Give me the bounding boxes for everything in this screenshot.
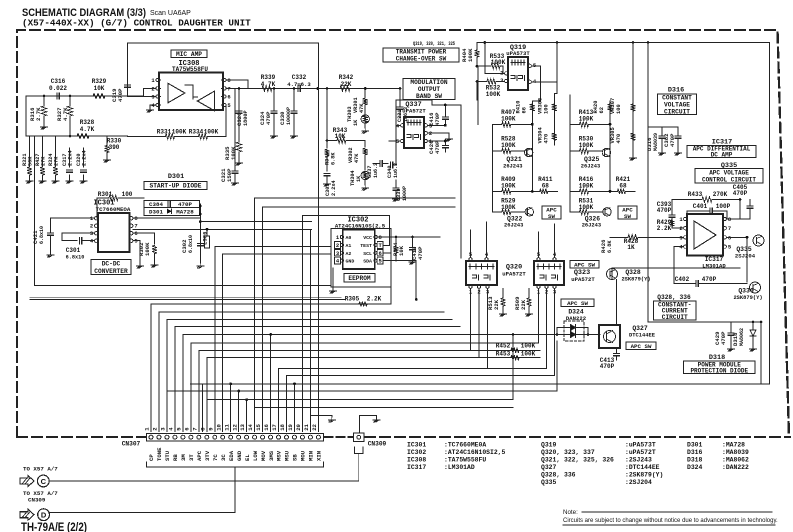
svg-text:100K: 100K bbox=[486, 91, 501, 98]
svg-text::TA75W558FU: :TA75W558FU bbox=[444, 456, 486, 463]
svg-text:12: 12 bbox=[231, 423, 238, 430]
svg-text:GND: GND bbox=[346, 259, 355, 265]
svg-text:470P: 470P bbox=[178, 201, 192, 208]
svg-text:R453: R453 bbox=[496, 350, 511, 357]
svg-text:7: 7 bbox=[191, 427, 198, 430]
svg-text:14: 14 bbox=[247, 423, 254, 430]
svg-text:DTC144EE: DTC144EE bbox=[629, 333, 656, 339]
svg-text:APC SW: APC SW bbox=[631, 343, 652, 350]
svg-text:R305: R305 bbox=[345, 296, 360, 303]
svg-text:Q336: Q336 bbox=[738, 288, 754, 295]
svg-text:470P: 470P bbox=[417, 246, 424, 260]
svg-text:R433: R433 bbox=[688, 191, 703, 198]
svg-text:CIRCUIT: CIRCUIT bbox=[664, 108, 690, 115]
svg-text:68: 68 bbox=[619, 183, 627, 190]
svg-text:470P: 470P bbox=[434, 112, 441, 126]
svg-text:2: 2 bbox=[90, 223, 93, 230]
svg-text:Q328, 336: Q328, 336 bbox=[657, 294, 691, 301]
svg-text:IC301: IC301 bbox=[407, 442, 426, 449]
svg-text:100K: 100K bbox=[230, 146, 237, 160]
svg-text:GND: GND bbox=[236, 450, 243, 461]
svg-text:CN309: CN309 bbox=[28, 497, 46, 504]
svg-text:2.2K: 2.2K bbox=[367, 296, 382, 303]
svg-text:100K: 100K bbox=[144, 242, 151, 256]
svg-text:2SK879(Y): 2SK879(Y) bbox=[733, 295, 762, 301]
svg-text::MA728: :MA728 bbox=[722, 442, 745, 449]
svg-text:6: 6 bbox=[227, 94, 230, 101]
svg-text:PROTECTION DIODE: PROTECTION DIODE bbox=[690, 368, 748, 375]
svg-text::DAN222: :DAN222 bbox=[722, 464, 749, 471]
svg-text:9: 9 bbox=[207, 427, 214, 431]
svg-text:62: 62 bbox=[599, 107, 605, 113]
svg-text:2.7K: 2.7K bbox=[35, 107, 42, 121]
svg-text:3: 3 bbox=[500, 77, 504, 84]
svg-text:10K: 10K bbox=[94, 85, 105, 92]
svg-text:26J243: 26J243 bbox=[581, 163, 600, 169]
svg-text:68: 68 bbox=[542, 183, 550, 190]
svg-text:C302: C302 bbox=[181, 239, 188, 253]
svg-text:A0: A0 bbox=[346, 235, 352, 241]
svg-text:7: 7 bbox=[728, 225, 731, 232]
svg-text:TEST: TEST bbox=[360, 243, 372, 249]
svg-text:4.7K: 4.7K bbox=[80, 126, 95, 133]
svg-text:LOW: LOW bbox=[252, 450, 259, 461]
svg-text::uPA572T: :uPA572T bbox=[625, 449, 656, 456]
svg-text:470P: 470P bbox=[117, 88, 124, 102]
svg-text:1800P: 1800P bbox=[243, 110, 249, 126]
svg-text:RB: RB bbox=[172, 454, 179, 461]
svg-text:26J243: 26J243 bbox=[504, 223, 523, 229]
svg-text:4.7u6.3: 4.7u6.3 bbox=[287, 81, 311, 88]
svg-text:EDA: EDA bbox=[228, 450, 235, 461]
svg-text:OUTPUT: OUTPUT bbox=[418, 86, 441, 93]
svg-text:3: 3 bbox=[336, 250, 340, 257]
svg-text:C384: C384 bbox=[149, 201, 163, 208]
svg-text::2SJ204: :2SJ204 bbox=[625, 479, 652, 486]
svg-text:10000P: 10000P bbox=[286, 107, 292, 125]
svg-text:7C: 7C bbox=[212, 454, 219, 461]
svg-text:22K: 22K bbox=[520, 299, 527, 310]
svg-text:MA728: MA728 bbox=[176, 209, 194, 216]
svg-text:Circuits are subject to change: Circuits are subject to change without n… bbox=[563, 518, 778, 524]
svg-text:13: 13 bbox=[239, 423, 246, 430]
svg-text:470: 470 bbox=[616, 134, 622, 144]
svg-text:0.022: 0.022 bbox=[49, 85, 67, 92]
svg-text:R339: R339 bbox=[261, 74, 276, 81]
svg-text:D318: D318 bbox=[687, 456, 703, 463]
svg-text:IC317: IC317 bbox=[407, 464, 426, 471]
svg-text:A2: A2 bbox=[346, 251, 352, 257]
svg-text:MIN: MIN bbox=[308, 451, 315, 461]
svg-text:MA8062: MA8062 bbox=[739, 328, 745, 346]
svg-text:17: 17 bbox=[271, 424, 278, 431]
svg-text:SDA: SDA bbox=[363, 259, 372, 265]
svg-text:20: 20 bbox=[295, 423, 302, 430]
svg-text:SCL: SCL bbox=[363, 251, 372, 257]
svg-text:1000P: 1000P bbox=[402, 186, 408, 201]
svg-text:2.2x4: 2.2x4 bbox=[82, 150, 88, 166]
svg-text::DTC144EE: :DTC144EE bbox=[625, 464, 660, 471]
svg-text::2SK879(Y): :2SK879(Y) bbox=[625, 471, 663, 478]
svg-text:IC302: IC302 bbox=[407, 449, 426, 456]
svg-text:Q321: Q321 bbox=[506, 156, 522, 163]
svg-text:MIC AMP: MIC AMP bbox=[176, 51, 202, 58]
svg-text:100K: 100K bbox=[172, 129, 187, 136]
svg-text:4: 4 bbox=[168, 427, 175, 431]
svg-text:10: 10 bbox=[215, 423, 222, 430]
svg-text:C421: C421 bbox=[32, 230, 39, 244]
svg-text:D: D bbox=[41, 511, 47, 520]
svg-text:IC308: IC308 bbox=[407, 456, 426, 463]
svg-text:1: 1 bbox=[144, 427, 151, 431]
svg-text:2SJ204: 2SJ204 bbox=[735, 253, 756, 260]
svg-text:C326: C326 bbox=[236, 112, 243, 126]
svg-text:270K: 270K bbox=[713, 191, 728, 198]
svg-text:Note:: Note: bbox=[563, 509, 578, 516]
svg-text:6.8K: 6.8K bbox=[331, 152, 337, 165]
svg-text:APC SW: APC SW bbox=[574, 261, 595, 268]
svg-text:6: 6 bbox=[183, 427, 190, 431]
svg-text:Q327: Q327 bbox=[541, 464, 557, 471]
svg-text:100K: 100K bbox=[521, 350, 536, 357]
svg-text:2.2x4: 2.2x4 bbox=[68, 150, 74, 166]
svg-text:MA8039: MA8039 bbox=[653, 133, 659, 151]
svg-text:T: T bbox=[379, 242, 383, 249]
svg-text:C402: C402 bbox=[675, 276, 690, 283]
svg-text:XIN: XIN bbox=[316, 451, 323, 461]
svg-text:470P: 470P bbox=[600, 363, 615, 370]
svg-text:uPA572T: uPA572T bbox=[402, 108, 426, 115]
svg-text:APC VOLTAGE: APC VOLTAGE bbox=[709, 169, 749, 176]
svg-text:19: 19 bbox=[287, 423, 294, 430]
svg-text:470P: 470P bbox=[720, 331, 727, 345]
svg-text:C330: C330 bbox=[279, 111, 286, 125]
svg-text:C316: C316 bbox=[51, 78, 66, 85]
svg-text:Q325: Q325 bbox=[584, 156, 600, 163]
svg-text:5: 5 bbox=[227, 102, 231, 109]
svg-text:Q320, 323, 337: Q320, 323, 337 bbox=[541, 449, 595, 456]
svg-text:SB: SB bbox=[292, 454, 299, 461]
svg-text:1K: 1K bbox=[356, 175, 362, 182]
svg-text:CP: CP bbox=[148, 454, 155, 461]
svg-text:16: 16 bbox=[263, 423, 270, 430]
svg-text:R334: R334 bbox=[189, 129, 204, 136]
svg-text:DC-DC: DC-DC bbox=[102, 260, 121, 267]
svg-text:100K: 100K bbox=[204, 129, 219, 136]
svg-text:6: 6 bbox=[379, 250, 382, 257]
svg-text:AT24C16N10S(2,5: AT24C16N10S(2,5 bbox=[335, 223, 386, 230]
svg-text:CONVERTER: CONVERTER bbox=[94, 268, 128, 275]
svg-text:Q319, 320, 321, 325: Q319, 320, 321, 325 bbox=[413, 40, 455, 47]
svg-text:TH303: TH303 bbox=[347, 106, 353, 122]
svg-text:C: C bbox=[41, 477, 47, 486]
svg-text:1: 1 bbox=[151, 77, 155, 84]
svg-text:Q327: Q327 bbox=[632, 325, 648, 332]
svg-text:MSV: MSV bbox=[276, 450, 283, 461]
svg-text:Scan UA6AP: Scan UA6AP bbox=[150, 10, 191, 17]
svg-text:D316: D316 bbox=[668, 87, 684, 95]
svg-text::AT24C16N10SI2,5: :AT24C16N10SI2,5 bbox=[444, 449, 506, 456]
svg-text:3MS: 3MS bbox=[268, 450, 275, 461]
svg-text:6.8x10: 6.8x10 bbox=[66, 255, 85, 261]
svg-text:22K: 22K bbox=[493, 299, 500, 310]
svg-text:47K: 47K bbox=[359, 103, 365, 113]
svg-text:18: 18 bbox=[279, 423, 286, 430]
svg-text:6.8K: 6.8K bbox=[607, 240, 613, 253]
svg-text:START-UP DIODE: START-UP DIODE bbox=[150, 183, 202, 190]
svg-text:D301: D301 bbox=[687, 442, 703, 449]
svg-text:390: 390 bbox=[109, 144, 120, 151]
svg-text:D318: D318 bbox=[732, 332, 739, 346]
svg-text:56K: 56K bbox=[28, 156, 34, 166]
svg-text:470P: 470P bbox=[434, 140, 441, 154]
svg-text:1K: 1K bbox=[627, 244, 635, 251]
svg-text:CHANGE-OVER SW: CHANGE-OVER SW bbox=[396, 56, 447, 63]
svg-text:5: 5 bbox=[728, 244, 732, 251]
svg-text::MA8039: :MA8039 bbox=[722, 449, 749, 456]
svg-text::2SJ243: :2SJ243 bbox=[625, 456, 652, 463]
svg-text:3C: 3C bbox=[220, 454, 227, 461]
svg-text:470P: 470P bbox=[702, 276, 717, 283]
svg-text:C301: C301 bbox=[66, 247, 81, 254]
svg-text:21: 21 bbox=[303, 423, 310, 430]
svg-text:R329: R329 bbox=[92, 78, 107, 85]
svg-text:27K: 27K bbox=[54, 156, 60, 166]
svg-text:15: 15 bbox=[255, 423, 262, 430]
svg-text:MSU: MSU bbox=[284, 451, 291, 461]
svg-text::LM301AD: :LM301AD bbox=[444, 464, 475, 471]
svg-text:TRANSMIT POWER: TRANSMIT POWER bbox=[396, 49, 447, 56]
svg-text:SW: SW bbox=[624, 213, 631, 220]
svg-text:EL: EL bbox=[244, 454, 251, 461]
svg-text:(X57-440X-XX) (G/7) CONTROL DA: (X57-440X-XX) (G/7) CONTROL DAUGHTER UNI… bbox=[22, 18, 251, 29]
svg-text:Q322: Q322 bbox=[507, 215, 523, 222]
svg-text:R452: R452 bbox=[496, 343, 511, 350]
svg-text:470P: 470P bbox=[733, 190, 748, 197]
svg-text:1u6.3: 1u6.3 bbox=[373, 163, 379, 178]
svg-text:APC: APC bbox=[196, 450, 203, 461]
svg-text:uPA573T: uPA573T bbox=[506, 50, 530, 57]
svg-text:27K: 27K bbox=[41, 156, 47, 166]
svg-text:1K: 1K bbox=[353, 119, 359, 126]
svg-text:1: 1 bbox=[679, 216, 683, 223]
svg-text::MA8062: :MA8062 bbox=[722, 456, 749, 463]
svg-text:11: 11 bbox=[223, 423, 230, 430]
svg-text:470: 470 bbox=[543, 134, 549, 144]
svg-text:2: 2 bbox=[336, 242, 339, 249]
svg-text:2.2K: 2.2K bbox=[657, 225, 672, 232]
svg-text:100K: 100K bbox=[521, 343, 536, 350]
svg-text:Q335: Q335 bbox=[541, 479, 557, 486]
svg-text:6.8x10: 6.8x10 bbox=[188, 235, 194, 253]
svg-text:APC SW: APC SW bbox=[567, 300, 588, 307]
svg-text:TH-79A/E (2/2): TH-79A/E (2/2) bbox=[21, 520, 87, 532]
svg-text:100: 100 bbox=[122, 191, 133, 198]
svg-text:2SK879(Y): 2SK879(Y) bbox=[621, 277, 650, 283]
svg-text:5: 5 bbox=[175, 427, 182, 431]
svg-text:uPA572T: uPA572T bbox=[571, 276, 595, 283]
svg-text:CONTROL CIRCUIT: CONTROL CIRCUIT bbox=[702, 177, 756, 184]
svg-text:3TV: 3TV bbox=[204, 450, 211, 461]
svg-text:3: 3 bbox=[160, 427, 167, 431]
svg-text:STU: STU bbox=[164, 451, 171, 461]
svg-text:D316: D316 bbox=[646, 137, 653, 151]
svg-text:D301: D301 bbox=[168, 173, 184, 181]
svg-text:MODULATION: MODULATION bbox=[410, 79, 447, 86]
svg-text:R328: R328 bbox=[80, 119, 95, 126]
svg-text:CN307: CN307 bbox=[122, 441, 141, 448]
svg-text:MOU: MOU bbox=[300, 451, 307, 461]
svg-text:26J243: 26J243 bbox=[582, 223, 601, 229]
svg-text:EEPROM: EEPROM bbox=[348, 275, 371, 282]
svg-text:7: 7 bbox=[134, 223, 137, 230]
svg-text:Q319: Q319 bbox=[541, 442, 557, 449]
svg-text:2: 2 bbox=[152, 427, 159, 431]
svg-text:3M: 3M bbox=[180, 454, 187, 461]
svg-text:150P: 150P bbox=[226, 168, 233, 182]
svg-text:470P: 470P bbox=[669, 133, 676, 147]
svg-text:10K: 10K bbox=[398, 245, 405, 256]
svg-text:Q326: Q326 bbox=[585, 215, 601, 222]
svg-text:uPA572T: uPA572T bbox=[502, 271, 526, 278]
svg-text:CIRCUIT: CIRCUIT bbox=[662, 314, 688, 321]
svg-text:TC7660MEOA: TC7660MEOA bbox=[96, 206, 131, 213]
svg-text:2.2x4: 2.2x4 bbox=[331, 180, 337, 196]
svg-text:26J243: 26J243 bbox=[503, 163, 522, 169]
svg-text:Q321, 322, 325, 326: Q321, 322, 325, 326 bbox=[541, 456, 614, 463]
svg-text:Q328: Q328 bbox=[625, 269, 641, 276]
svg-text:TO X57 A/7: TO X57 A/7 bbox=[23, 466, 58, 473]
svg-text:MOV: MOV bbox=[260, 450, 267, 461]
svg-text:47K: 47K bbox=[354, 153, 360, 163]
svg-text:22K: 22K bbox=[341, 81, 352, 88]
svg-text:DC AMP: DC AMP bbox=[711, 152, 733, 159]
svg-text:1: 1 bbox=[336, 234, 340, 241]
svg-text:100: 100 bbox=[543, 104, 549, 114]
svg-text:100K: 100K bbox=[467, 48, 474, 62]
svg-text:D324: D324 bbox=[687, 464, 703, 471]
svg-text:VCC: VCC bbox=[363, 235, 372, 241]
svg-text:BAND SW: BAND SW bbox=[416, 93, 442, 100]
svg-text::uPA573T: :uPA573T bbox=[625, 442, 656, 449]
svg-text:C401: C401 bbox=[693, 203, 708, 210]
svg-text:100: 100 bbox=[616, 104, 622, 114]
svg-text:470P: 470P bbox=[657, 207, 672, 214]
svg-text:D301: D301 bbox=[149, 209, 163, 216]
svg-text:TONE: TONE bbox=[156, 447, 163, 461]
svg-text:D316: D316 bbox=[687, 449, 703, 456]
svg-text:3T: 3T bbox=[188, 454, 195, 461]
svg-text:A1: A1 bbox=[346, 243, 352, 249]
svg-text:22: 22 bbox=[311, 423, 318, 430]
svg-text::TC7660ME0A: :TC7660ME0A bbox=[444, 442, 486, 449]
svg-text:CN309: CN309 bbox=[368, 441, 387, 448]
svg-text:6.8x10: 6.8x10 bbox=[39, 226, 45, 244]
svg-text:R426: R426 bbox=[600, 239, 607, 253]
svg-text:SW: SW bbox=[548, 213, 555, 220]
svg-text:Q328, 336: Q328, 336 bbox=[541, 471, 576, 478]
svg-text:R342: R342 bbox=[339, 74, 354, 81]
svg-text:C332: C332 bbox=[292, 74, 307, 81]
svg-text:100P: 100P bbox=[716, 203, 731, 210]
svg-text:66: 66 bbox=[521, 107, 527, 113]
